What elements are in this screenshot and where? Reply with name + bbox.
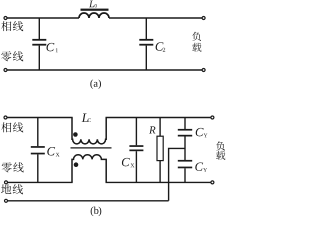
label C2 bbox=[156, 42, 166, 51]
wire: ground riser to Cy midpoint bbox=[169, 148, 185, 200]
resistor R bbox=[157, 118, 163, 183]
label C1 bbox=[47, 43, 58, 52]
capacitor CX1 bbox=[31, 118, 45, 183]
wire: (b) phase top wire right segment bbox=[106, 117, 212, 119]
capacitor CX2 bbox=[129, 118, 143, 183]
polarity dot: Lc top winding bbox=[73, 132, 78, 137]
capacitor C2 bbox=[139, 18, 153, 70]
terminal: (b) phase left bbox=[4, 116, 7, 119]
label: (a) load 负载 bbox=[192, 32, 201, 52]
capacitor CY1 bbox=[178, 118, 192, 161]
polarity dot: Lc bottom winding bbox=[74, 162, 79, 167]
label: (a) phase line 相线 bbox=[1, 21, 23, 31]
wire: (b) phase top wire left segment bbox=[7, 117, 73, 119]
label R bbox=[149, 126, 155, 133]
wire: (a) phase top wire right segment bbox=[109, 17, 202, 19]
inductor Lc core bbox=[71, 147, 112, 149]
terminal: (a) neutral right bbox=[202, 69, 205, 72]
label: (b) load 负载 bbox=[216, 141, 225, 160]
wire: (b) neutral wire right segment bbox=[106, 181, 212, 183]
wire: (b) neutral wire left segment bbox=[7, 181, 73, 183]
wire: (b) ground wire bbox=[7, 200, 169, 202]
label CX2 bbox=[122, 158, 134, 167]
terminal: (b) neutral left bbox=[5, 181, 8, 184]
inductor L0 coil bbox=[79, 13, 109, 18]
label: (b) neutral line 零线 bbox=[2, 162, 24, 172]
inductor Lc top winding bbox=[72, 118, 106, 144]
terminal: (b) neutral right bbox=[211, 181, 214, 184]
terminal: (a) phase right bbox=[202, 17, 205, 20]
terminal: (a) phase left bbox=[4, 17, 7, 20]
label L0 bbox=[89, 1, 97, 8]
wire: (a) neutral bottom wire bbox=[7, 69, 202, 71]
label Lc bbox=[82, 114, 91, 123]
label CX1 bbox=[47, 147, 59, 156]
terminal: (b) phase right bbox=[211, 116, 214, 119]
label: (b) ground line 地线 bbox=[1, 184, 23, 194]
terminal: (a) neutral left bbox=[4, 69, 7, 72]
inductor L0 core bar bbox=[81, 9, 109, 11]
label: subfigure (b) bbox=[91, 207, 102, 216]
capacitor CY2 bbox=[178, 160, 192, 183]
terminal: (b) ground left bbox=[5, 199, 8, 202]
label: (b) phase line 相线 bbox=[1, 122, 23, 132]
inductor Lc bottom winding bbox=[72, 155, 106, 183]
label CY2 bbox=[195, 162, 207, 171]
wire: (a) phase top wire left segment bbox=[7, 17, 79, 19]
label: (a) neutral line 零线 bbox=[1, 51, 23, 61]
capacitor C1 bbox=[32, 18, 46, 70]
label: subfigure (a) bbox=[90, 79, 101, 88]
label CY1 bbox=[196, 128, 208, 137]
